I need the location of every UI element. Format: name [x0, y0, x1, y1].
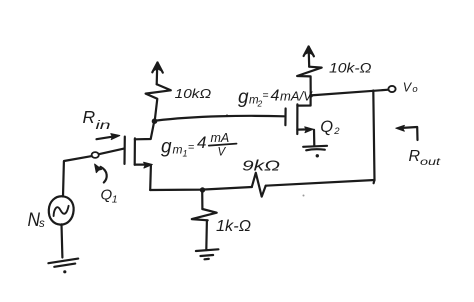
- node B feedback node: [200, 187, 205, 192]
- label gm2 = 4mA/V: [238, 87, 313, 109]
- bottom wire Q1 source to 9k: [150, 187, 252, 190]
- wire RF to right corner: [266, 180, 375, 186]
- svg-text:1: 1: [183, 149, 188, 159]
- label gm1 = 4 mA/V: [161, 131, 229, 159]
- wire Ns to ground: [60, 224, 63, 257]
- Q1 drain lead: [135, 124, 154, 140]
- svg-text:s: s: [39, 218, 45, 230]
- svg-text:o: o: [412, 84, 417, 95]
- stray ink speck: [303, 195, 305, 197]
- svg-text:1: 1: [112, 193, 118, 205]
- voltage source Ns: [49, 196, 74, 224]
- label Rout: [409, 148, 442, 168]
- ground RS: [196, 249, 219, 259]
- svg-text:4: 4: [197, 133, 206, 152]
- label Vo: [403, 81, 418, 95]
- label 10kΩ RD1: [175, 86, 212, 101]
- output terminal circle: [388, 86, 395, 92]
- label 9kΩ: [242, 157, 280, 174]
- fraction bar of gm1: [209, 144, 237, 146]
- svg-text:V: V: [218, 147, 227, 159]
- Rout arrow: [396, 125, 418, 140]
- svg-text:mA/V: mA/V: [280, 89, 313, 104]
- label 1kΩ: [216, 218, 251, 235]
- svg-text:g: g: [238, 87, 249, 108]
- svg-text:V: V: [403, 81, 413, 95]
- svg-text:=: =: [188, 142, 194, 154]
- junction blip on wire: [226, 115, 228, 117]
- node C output node: [309, 94, 313, 98]
- label Rin: [83, 107, 111, 132]
- label 10k-Ω RD2: [329, 59, 372, 75]
- resistor RF 9k spike: [252, 173, 266, 197]
- open circle input node: [92, 152, 99, 158]
- svg-text:2: 2: [333, 126, 340, 137]
- resistor RD2 10k zigzag: [297, 67, 322, 95]
- ground Q2: [303, 146, 327, 158]
- svg-text:10k-Ω: 10k-Ω: [329, 59, 372, 75]
- svg-text:1k-Ω: 1k-Ω: [216, 218, 251, 235]
- svg-text:R: R: [409, 148, 421, 165]
- label Ns: [28, 210, 46, 231]
- power arrow VDD1: [152, 62, 163, 84]
- Rin arrow: [97, 134, 120, 140]
- wire top of Ns: [62, 161, 65, 196]
- transistor Q1: [125, 124, 154, 169]
- Q2 channel bar: [296, 104, 298, 134]
- Q1 channel bar: [134, 138, 136, 164]
- svg-text:m: m: [173, 143, 183, 157]
- svg-text:g: g: [161, 137, 172, 158]
- Q2 drain lead: [297, 95, 310, 106]
- Q2 source lead with arrow: [297, 128, 308, 130]
- wire node A to Q2 gate: [156, 116, 284, 121]
- label Q2: [320, 118, 340, 137]
- Q1 gate bar: [123, 137, 126, 164]
- resistor RD1 10k zigzag: [146, 84, 171, 118]
- svg-text:Q: Q: [320, 118, 333, 136]
- resistor RS 1k: [192, 190, 217, 250]
- svg-text:10kΩ: 10kΩ: [175, 86, 212, 101]
- svg-text:mA: mA: [211, 131, 230, 145]
- svg-text:Q: Q: [101, 187, 113, 204]
- svg-text:=: =: [263, 90, 269, 102]
- svg-text:9kΩ: 9kΩ: [242, 157, 280, 174]
- curved arrow to Q1: [95, 164, 107, 183]
- power arrow VDD2: [304, 46, 314, 67]
- input wire source to Q1 gate: [64, 156, 92, 161]
- svg-text:4: 4: [271, 88, 280, 105]
- feedback vertical wire: [373, 91, 374, 181]
- transistor Q2: [285, 95, 313, 134]
- node A Q1 drain: [152, 118, 158, 124]
- wire Q2 source to ground: [313, 130, 315, 146]
- svg-text:R: R: [83, 107, 96, 127]
- svg-text:in: in: [96, 120, 111, 132]
- wire to Vo terminal: [311, 90, 388, 96]
- ground Ns: [48, 259, 78, 274]
- Q2 gate bar: [284, 109, 286, 126]
- wire circle to gate: [99, 149, 124, 155]
- label Q1: [101, 187, 118, 206]
- wire Q1 source down: [149, 166, 152, 191]
- Q1 source lead with arrow: [135, 164, 148, 166]
- svg-text:out: out: [420, 157, 442, 168]
